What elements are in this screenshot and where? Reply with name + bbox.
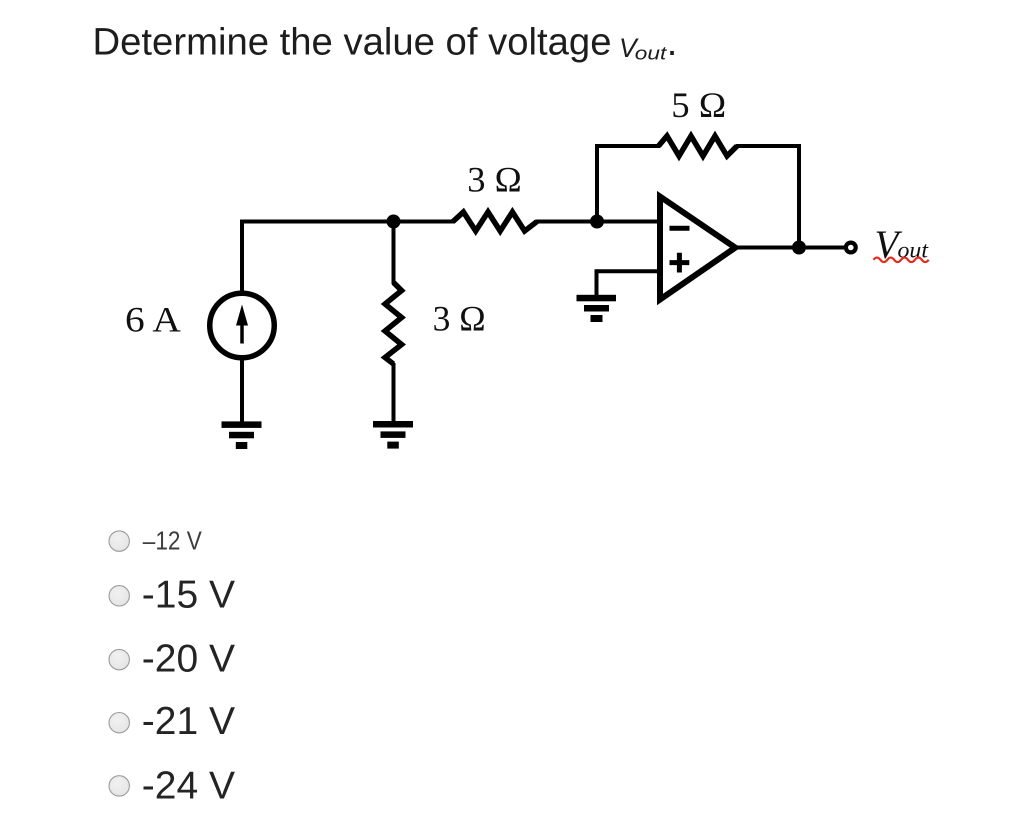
resistor R2 3ohm vertical zigzag: [385, 283, 402, 365]
op-amp U1 triangle: [660, 197, 735, 300]
wire left vertical from top corner to current source: [240, 220, 244, 293]
spellcheck squiggle under Vout: [874, 258, 929, 263]
svg-text:.: .: [667, 22, 678, 64]
node A junction dot: [387, 215, 401, 229]
wire output from op-amp: [736, 246, 846, 250]
svg-text:6 A: 6 A: [125, 299, 181, 339]
svg-text:Determine the value of voltage: Determine the value of voltage: [93, 21, 612, 63]
wire feedback top right segment: [736, 144, 799, 148]
svg-text:-15 V: -15 V: [142, 574, 235, 617]
wire from R1 to op-amp inverting input: [536, 220, 660, 224]
wire feedback top left segment: [595, 144, 660, 148]
wire feedback right vertical down to output node: [797, 144, 801, 248]
radio button option 1: [109, 531, 129, 551]
svg-text:5 Ω: 5 Ω: [671, 85, 726, 125]
current source arrow: [236, 305, 248, 344]
svg-text:-20 V: -20 V: [142, 638, 235, 681]
radio button option 2: [109, 586, 129, 606]
svg-text:3 Ω: 3 Ω: [433, 299, 486, 339]
svg-text:out: out: [635, 44, 668, 64]
op-amp inverting pin minus sign: [670, 226, 690, 231]
op-amp noninverting pin plus sign: [670, 253, 690, 273]
node B junction dot at inverting input: [590, 215, 604, 229]
label Vout: [875, 222, 929, 267]
resistor R3 5ohm feedback zigzag: [659, 136, 738, 156]
svg-text:3 Ω: 3 Ω: [467, 160, 522, 200]
node output junction dot: [792, 241, 806, 255]
ground below R2: [373, 421, 413, 449]
svg-text:-21 V: -21 V: [142, 700, 235, 743]
wire feedback left vertical: [595, 144, 599, 223]
ground at op-amp plus input: [577, 295, 617, 322]
ground below current source: [222, 421, 262, 449]
radio button option 3: [109, 649, 129, 669]
wire noninverting input horizontal: [597, 269, 660, 273]
current source I1 circle: [210, 293, 275, 358]
wire node A down to resistor R2: [392, 222, 396, 285]
resistor R1 3ohm horizontal zigzag: [453, 212, 537, 231]
terminal Vout open circle: [846, 243, 856, 253]
svg-text:–12 V: –12 V: [143, 527, 202, 555]
wire current source to ground: [240, 358, 244, 422]
radio button option 4: [109, 713, 129, 733]
wire resistor R2 to ground: [392, 363, 396, 422]
wire top horizontal to resistor R1: [240, 220, 455, 224]
svg-text:-24 V: -24 V: [142, 764, 235, 807]
wire noninverting input vertical to ground: [595, 269, 599, 296]
question title text: [93, 21, 678, 64]
radio button option 5: [109, 776, 129, 796]
